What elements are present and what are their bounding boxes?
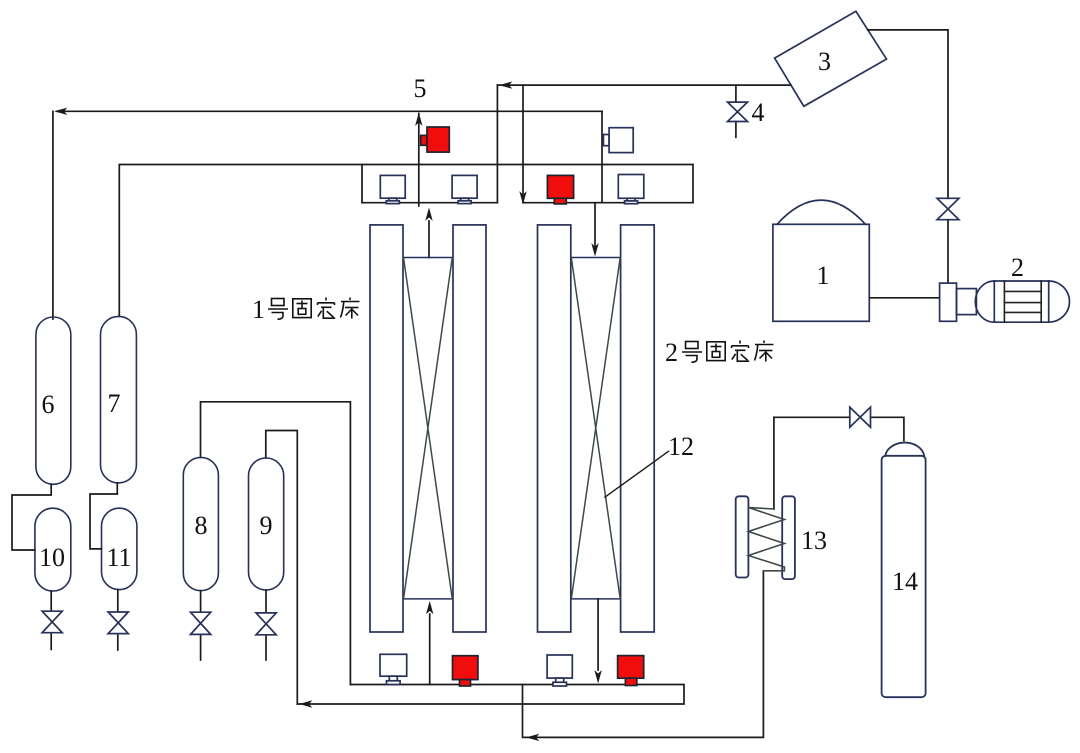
heat exchanger 13 inlet line (773, 417, 775, 509)
svg-text:12: 12 (668, 432, 694, 461)
wire: vertical x497.4 from y85 to manifold bottom (496, 85, 498, 203)
column 9 (249, 458, 284, 590)
drain valve under 9 (265, 590, 267, 613)
box 3 (rotated vessel) (775, 11, 887, 106)
wire: bed1 bottom feed arrow up (429, 614, 431, 685)
top manifold sampling valve white 1 (380, 175, 405, 203)
wire: vertical down to column 6 (52, 111, 54, 319)
fixed bed 2 left wall (538, 225, 571, 632)
valve on pump suction line (937, 198, 959, 219)
svg-text:10: 10 (39, 543, 65, 572)
wire: second line y=164.5 from x119 to manifold (119, 165, 362, 317)
svg-text:2: 2 (1011, 253, 1024, 282)
arrow left at (57,111) (54, 108, 67, 115)
wire: bed1 top line from tube to manifold, arrow up (428, 221, 430, 258)
wire: line y=85 from corner to box 3 (497, 84, 791, 86)
pump 2 (940, 281, 1070, 322)
valve 4 body (728, 102, 748, 121)
fixed bed 1 inner tube (404, 258, 453, 599)
svg-text:7: 7 (108, 389, 121, 418)
wire: bed2 top feed with down arrow (594, 203, 596, 252)
label 1号固定床 (252, 295, 360, 324)
fixed bed 1 left wall (370, 225, 403, 632)
fixed bed 2 inner tube (571, 258, 620, 599)
wire: vertical x602 from y111 to top manifold (601, 111, 603, 202)
drain valve under 11 (117, 590, 119, 612)
valve on cylinder line (horizontal bowtie) (850, 407, 871, 427)
bottom manifold sampling valve white 2 (547, 655, 572, 686)
exchanger coil (748, 508, 784, 571)
svg-text:3: 3 (818, 47, 831, 76)
fixed bed 2 right wall (621, 225, 655, 632)
bottom manifold (297, 685, 684, 705)
wire: from box3 to right vertical down to pump (868, 30, 948, 198)
column 7 (101, 316, 137, 483)
bottom manifold sampling valve white 1 (380, 654, 407, 684)
wire: column 9 riser (266, 431, 298, 705)
bottom manifold solenoid red 2 (618, 656, 644, 686)
label 12 with leader (605, 451, 669, 497)
wire: bed2 bottom outlet arrow down (597, 599, 599, 670)
fixed bed 1 packing X (404, 258, 453, 599)
fixed bed 2 packing X (571, 258, 620, 599)
label 2号固定床 (665, 338, 774, 367)
wire: bed1 top outlet vertical x418.8 with up arrow to line5 (418, 114, 420, 207)
svg-text:1: 1 (817, 261, 830, 290)
svg-text:5: 5 (414, 74, 427, 103)
side solenoid white near bed2 feed (603, 128, 633, 153)
wire: 7 to 11 (90, 483, 117, 549)
column 10 (35, 508, 71, 591)
top manifold sampling valve white 2 (452, 175, 477, 203)
wire: tank to pump (869, 297, 939, 299)
top manifold solenoid red (547, 175, 573, 204)
svg-text:1: 1 (252, 295, 265, 324)
svg-text:11: 11 (106, 543, 131, 572)
drain valve under 8 (200, 591, 202, 613)
wire: vertical x523 from y85 into manifold with down arrow (522, 85, 524, 202)
fixed bed 1 right wall (453, 225, 486, 632)
svg-text:4: 4 (752, 98, 765, 127)
wire: column 8 to bottom manifold (201, 402, 351, 685)
column 8 (183, 457, 218, 590)
wire: 6 to 10 (12, 484, 51, 550)
bottom manifold solenoid red 1 (453, 656, 478, 686)
svg-text:13: 13 (801, 526, 827, 555)
valve 4 stem (735, 85, 737, 102)
column 6 (36, 317, 71, 484)
wire: top recycle line y=111 from arrow x57 to corner x602 (57, 110, 602, 112)
top manifold sampling valve white 3 (618, 175, 644, 204)
drain valve under 10 (50, 591, 52, 611)
top manifold box (362, 165, 693, 203)
column 11 (102, 508, 137, 589)
svg-text:6: 6 (42, 390, 55, 419)
svg-text:8: 8 (195, 511, 208, 540)
svg-text:2: 2 (665, 338, 678, 367)
tank 1 (773, 200, 869, 321)
wire: exchanger return to manifold (522, 685, 524, 738)
svg-text:14: 14 (892, 567, 918, 596)
side solenoid red near 5 (421, 127, 450, 152)
svg-text:9: 9 (260, 511, 273, 540)
heat exchanger 13 (736, 496, 795, 579)
wire: cylinder line y=417 (774, 416, 850, 418)
gas cylinder 14 (882, 443, 926, 698)
